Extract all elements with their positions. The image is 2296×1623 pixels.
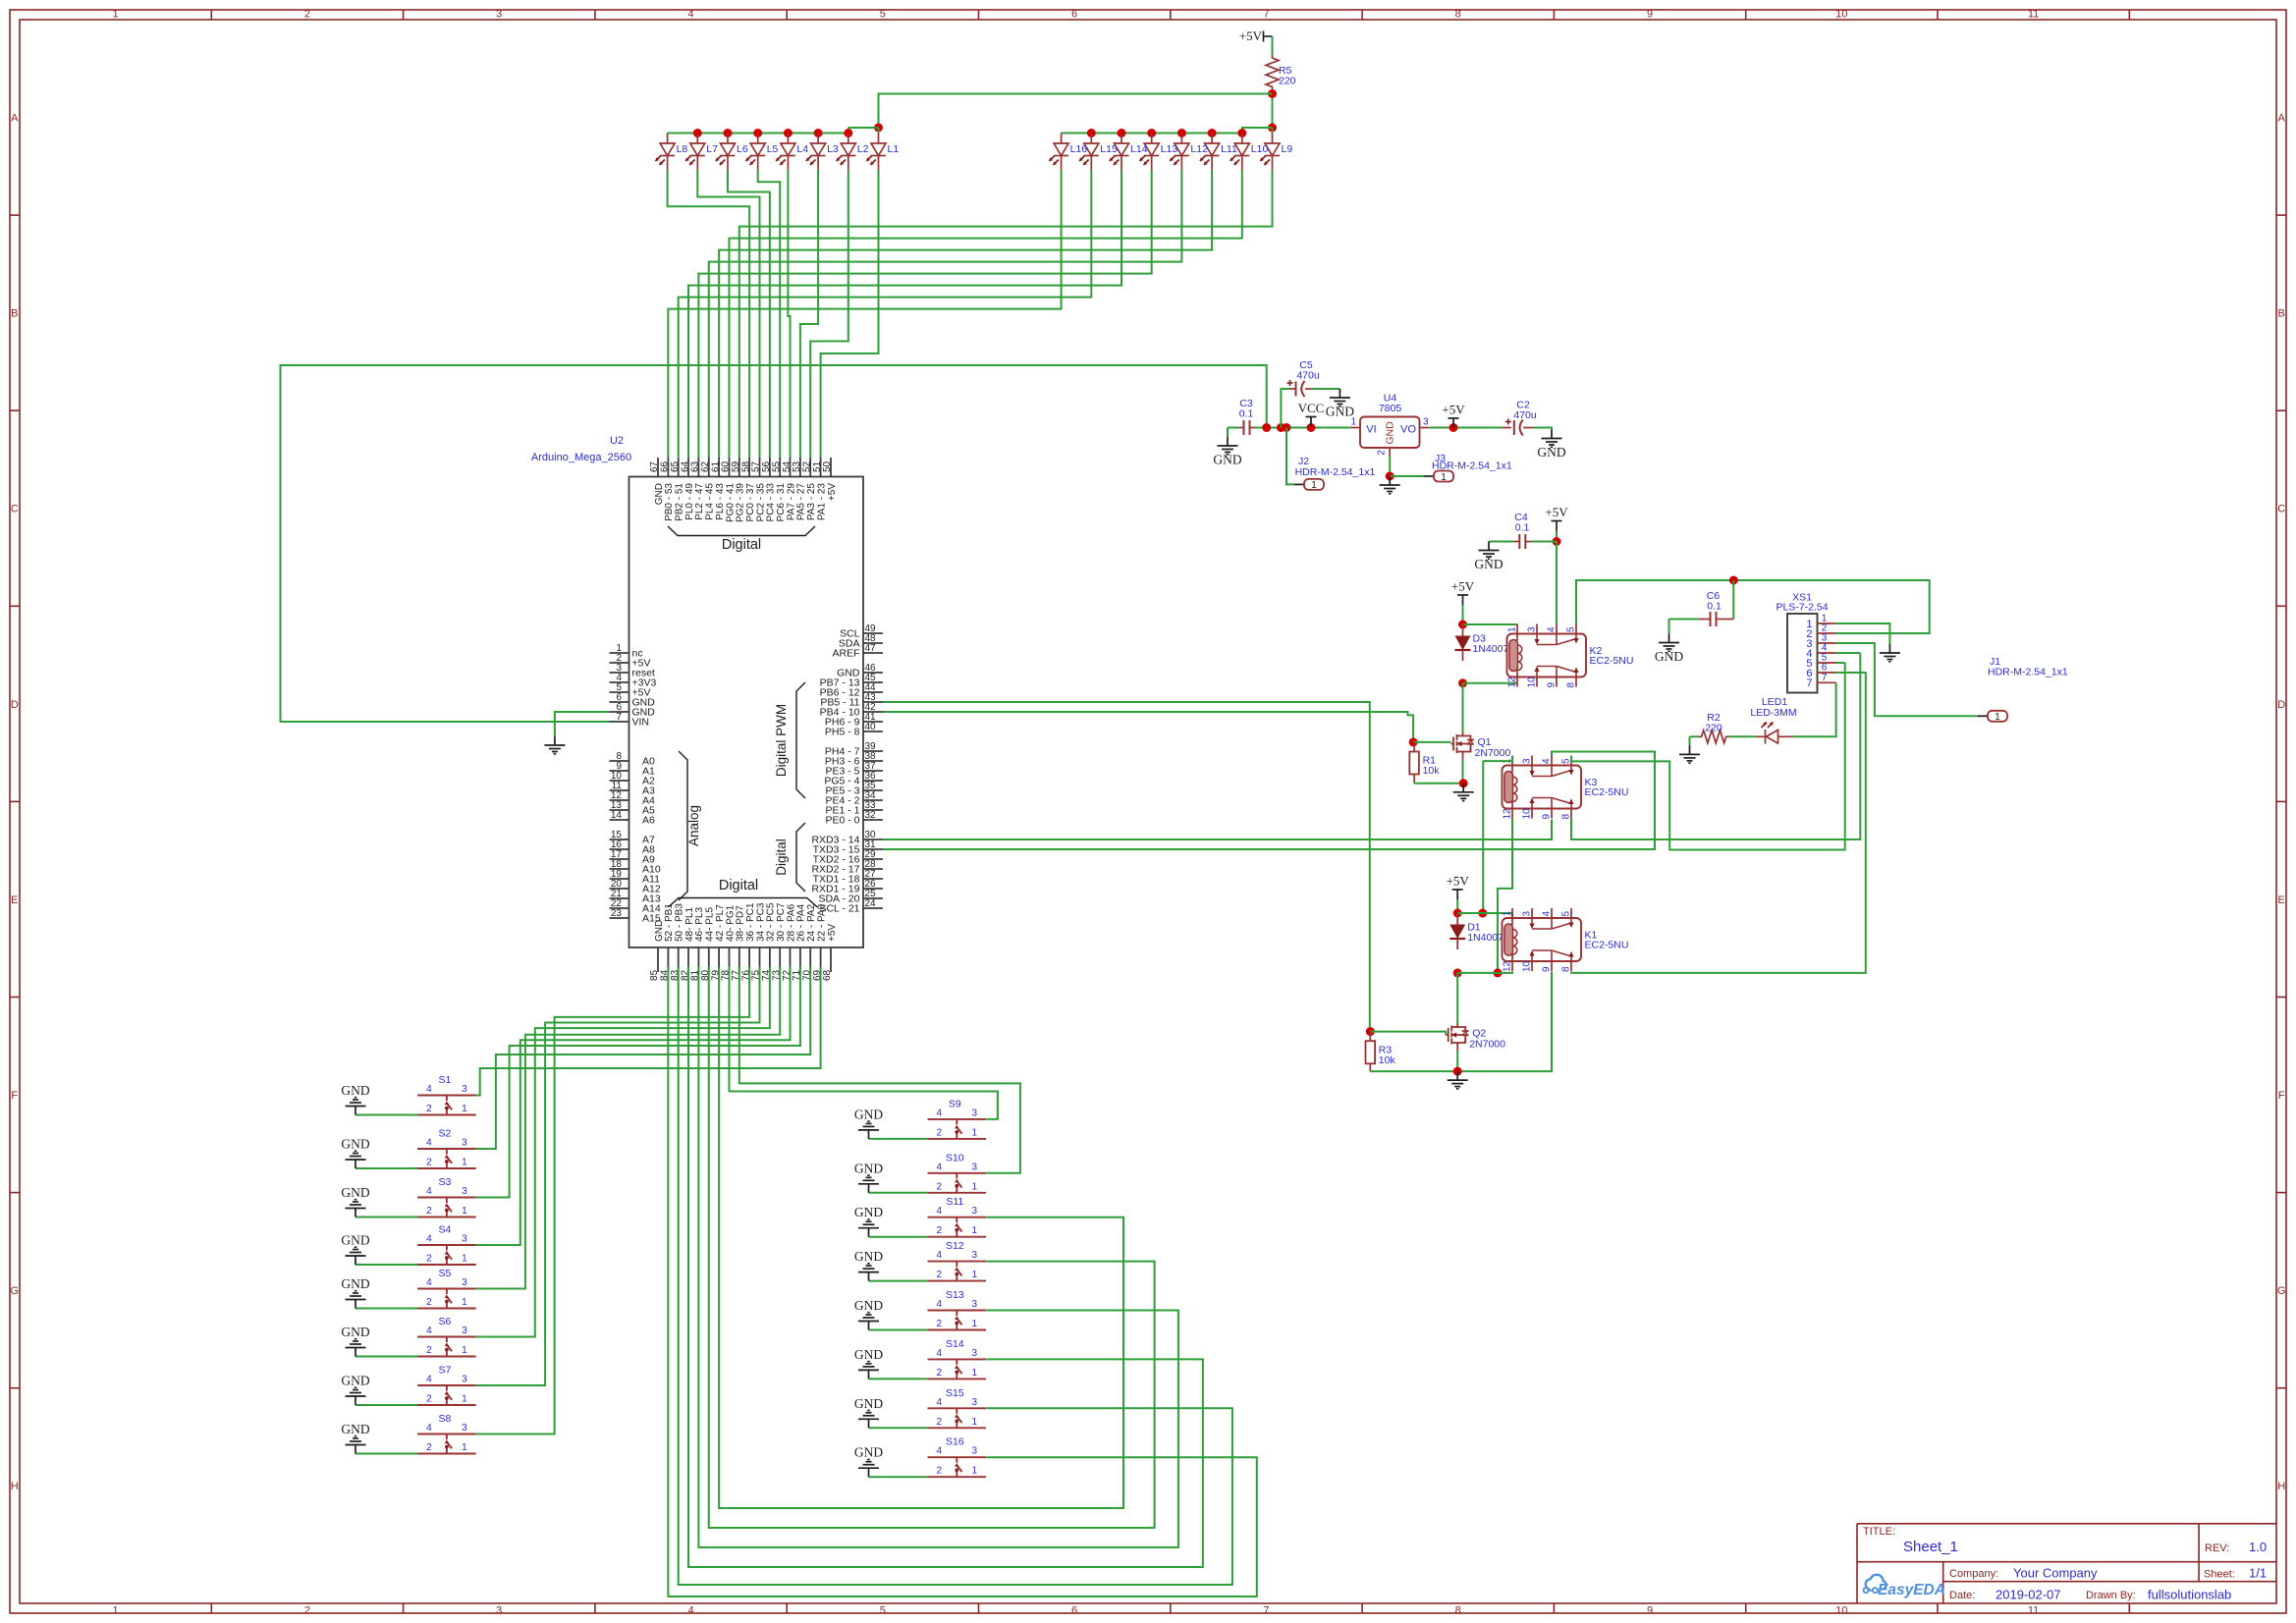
svg-text:Sheet_1: Sheet_1	[1903, 1539, 1958, 1555]
svg-text:S12: S12	[946, 1240, 964, 1252]
wire	[719, 967, 1123, 1509]
svg-text:3: 3	[972, 1108, 978, 1118]
wire	[788, 170, 790, 458]
svg-text:PA3 - 25: PA3 - 25	[806, 483, 817, 521]
switch S2	[417, 1149, 476, 1168]
wire	[476, 967, 781, 1289]
wire	[1836, 662, 1845, 664]
svg-text:HDR-M-2.54_1x1: HDR-M-2.54_1x1	[1295, 466, 1376, 478]
wire	[698, 967, 1178, 1548]
LED L8	[660, 134, 675, 171]
wire	[1571, 653, 1860, 839]
ground U2 GND pin	[544, 736, 565, 754]
junction	[1277, 423, 1285, 432]
wire	[1690, 735, 1699, 737]
svg-text:E: E	[11, 894, 18, 906]
U2 group label Digital (bottom)	[668, 898, 817, 908]
svg-text:D: D	[2277, 699, 2285, 711]
wire	[668, 133, 849, 135]
ground S7	[346, 1387, 366, 1405]
junction L5	[753, 129, 762, 137]
svg-text:220: 220	[1279, 76, 1296, 87]
wire	[883, 702, 1370, 1032]
ground S2	[346, 1151, 366, 1168]
LED L11	[1205, 134, 1220, 171]
power flag +5V	[1452, 890, 1463, 899]
svg-text:10: 10	[1522, 808, 1533, 820]
wire	[1312, 388, 1339, 390]
svg-text:1N4007: 1N4007	[1473, 643, 1509, 655]
LED L3	[811, 134, 826, 171]
junction L14	[1118, 129, 1126, 137]
svg-text:1: 1	[972, 1319, 978, 1329]
svg-text:26 - PA4: 26 - PA4	[796, 903, 807, 942]
svg-text:3: 3	[462, 1084, 467, 1095]
svg-text:1/1: 1/1	[2249, 1566, 2267, 1581]
ground Q2 source	[1448, 1071, 1468, 1089]
switch S9	[928, 1119, 987, 1139]
svg-text:PL2 - 47: PL2 - 47	[694, 483, 705, 520]
ground S1	[346, 1098, 366, 1115]
svg-text:59: 59	[731, 460, 741, 472]
XS1 pin 1	[1818, 622, 1836, 624]
junction	[1453, 968, 1462, 977]
wire	[1272, 36, 1274, 55]
wire	[1370, 1070, 1457, 1072]
svg-text:F: F	[2278, 1090, 2285, 1102]
svg-text:32 - PC5: 32 - PC5	[766, 902, 777, 942]
svg-text:4: 4	[937, 1250, 943, 1261]
svg-text:VIN: VIN	[632, 717, 650, 729]
wire	[1062, 133, 1242, 135]
wire	[476, 967, 770, 1337]
resistor R5 220	[1266, 55, 1279, 90]
wire	[869, 1280, 928, 1282]
junction	[1453, 909, 1462, 918]
svg-text:GND: GND	[1385, 421, 1396, 445]
ground S6	[346, 1339, 366, 1357]
wire	[1390, 475, 1424, 477]
svg-text:5: 5	[1561, 758, 1572, 764]
svg-text:14: 14	[611, 810, 623, 821]
svg-text:PC2 - 35: PC2 - 35	[755, 483, 766, 522]
R1 top lead	[1413, 742, 1415, 752]
wire	[728, 170, 770, 458]
wire	[758, 170, 781, 458]
svg-text:1: 1	[1507, 626, 1518, 632]
junction	[1283, 423, 1291, 432]
svg-text:1: 1	[462, 1206, 467, 1217]
wire	[1228, 427, 1238, 429]
svg-text:60: 60	[721, 460, 732, 472]
svg-text:11: 11	[2028, 1605, 2039, 1617]
svg-text:GND: GND	[854, 1161, 883, 1175]
svg-text:L12: L12	[1190, 143, 1208, 155]
U2 left pins	[610, 652, 629, 654]
LED L10	[1234, 134, 1249, 171]
svg-text:1: 1	[972, 1225, 978, 1236]
wire	[476, 967, 749, 1434]
ground C6	[1659, 634, 1679, 652]
switch S8	[417, 1434, 476, 1454]
svg-text:3: 3	[1527, 626, 1538, 632]
svg-text:1: 1	[113, 9, 119, 21]
svg-text:1: 1	[972, 1181, 978, 1192]
svg-text:32: 32	[864, 810, 876, 821]
wire	[1792, 682, 1836, 736]
junction	[1307, 423, 1316, 432]
wire	[869, 1378, 928, 1380]
svg-text:64: 64	[680, 460, 690, 472]
svg-text:6: 6	[1071, 9, 1077, 21]
wire	[281, 365, 1267, 722]
svg-text:38- PD7: 38- PD7	[736, 905, 746, 942]
wire	[688, 170, 1121, 458]
LED L16	[1054, 134, 1068, 171]
LED L13	[1144, 134, 1159, 171]
svg-text:4: 4	[687, 1605, 693, 1617]
svg-text:1: 1	[1441, 472, 1447, 483]
wire	[1489, 541, 1513, 543]
svg-text:6: 6	[1071, 1605, 1077, 1617]
svg-text:HDR-M-2.54_1x1: HDR-M-2.54_1x1	[1432, 460, 1512, 472]
svg-text:VCC: VCC	[1298, 401, 1325, 415]
svg-text:Analog: Analog	[686, 805, 701, 846]
ground S11	[858, 1219, 879, 1237]
header J1 pin 1	[1978, 715, 1988, 717]
wire	[355, 1356, 417, 1358]
wire	[719, 170, 1212, 458]
svg-text:B: B	[11, 308, 18, 320]
wire	[355, 1114, 417, 1116]
ground R2	[1679, 745, 1700, 763]
wire	[355, 1217, 417, 1218]
power flag +5V	[1457, 595, 1468, 605]
svg-text:L4: L4	[796, 143, 808, 155]
svg-text:7: 7	[1263, 9, 1269, 21]
svg-text:40: 40	[864, 722, 876, 732]
EasyEDA logo	[1864, 1575, 1886, 1593]
svg-text:2N7000: 2N7000	[1475, 747, 1511, 759]
ground XS1 pin1	[1880, 644, 1900, 662]
svg-text:L8: L8	[677, 143, 688, 155]
svg-text:3: 3	[972, 1348, 978, 1359]
svg-text:SCL - 21: SCL - 21	[819, 903, 859, 915]
diode D3 1N4007	[1462, 624, 1464, 636]
XS1 pin 4	[1818, 652, 1836, 654]
svg-text:3: 3	[972, 1250, 978, 1261]
junction L4	[784, 129, 793, 137]
svg-text:+5V: +5V	[1447, 874, 1470, 889]
wire	[668, 967, 1256, 1597]
ground S3	[346, 1200, 366, 1217]
R3 bottom lead	[1369, 1063, 1371, 1071]
svg-text:1.0: 1.0	[2249, 1540, 2267, 1554]
wire	[1483, 756, 1512, 762]
wire	[1836, 643, 1978, 716]
R3 top lead	[1369, 1032, 1371, 1042]
wire	[697, 170, 759, 458]
wire Q2 source	[1456, 1047, 1458, 1052]
svg-text:REV:: REV:	[2205, 1542, 2229, 1554]
svg-text:1: 1	[462, 1104, 467, 1114]
junction	[1494, 968, 1503, 977]
svg-text:2: 2	[937, 1368, 943, 1379]
svg-text:S2: S2	[438, 1128, 451, 1140]
svg-text:Date:: Date:	[1949, 1590, 1975, 1601]
svg-text:PL6 - 43: PL6 - 43	[715, 483, 726, 520]
svg-text:4: 4	[937, 1108, 943, 1118]
svg-text:4: 4	[937, 1446, 943, 1457]
svg-text:46- PL3: 46- PL3	[694, 907, 705, 942]
svg-text:L5: L5	[767, 143, 779, 155]
wire	[1498, 819, 1512, 973]
svg-text:U2: U2	[610, 435, 624, 447]
wire	[355, 1308, 417, 1310]
relay K1 EC2-5NU	[1503, 918, 1582, 961]
U2 bottom pins 85-68	[657, 947, 659, 972]
wire	[869, 1427, 928, 1429]
wire	[883, 820, 1552, 840]
svg-text:2: 2	[426, 1297, 432, 1308]
LED L7	[690, 134, 705, 171]
ground C4	[1479, 542, 1500, 560]
svg-text:3: 3	[462, 1325, 467, 1336]
svg-text:VI: VI	[1366, 424, 1376, 436]
connector XS1 PLS-7-2.54	[1787, 614, 1818, 693]
LED L1	[871, 134, 886, 171]
svg-text:L10: L10	[1251, 143, 1269, 155]
switch S13	[928, 1311, 987, 1330]
svg-text:67: 67	[649, 460, 660, 472]
svg-text:2: 2	[937, 1225, 943, 1236]
svg-text:EC2-5NU: EC2-5NU	[1585, 940, 1629, 951]
wire	[476, 967, 811, 1150]
wire	[1836, 632, 1930, 634]
junction	[1553, 537, 1561, 546]
regulator U4 7805	[1360, 417, 1420, 449]
svg-text:HDR-M-2.54_1x1: HDR-M-2.54_1x1	[1988, 667, 2068, 678]
U2 group label Digital (top)	[668, 526, 815, 536]
svg-text:F: F	[11, 1090, 18, 1102]
svg-text:fullsolutionslab: fullsolutionslab	[2148, 1588, 2231, 1602]
svg-text:4: 4	[1547, 626, 1558, 632]
svg-text:PE0 - 0: PE0 - 0	[825, 815, 859, 827]
wire	[679, 967, 1232, 1586]
svg-text:Your Company: Your Company	[2013, 1566, 2098, 1581]
svg-text:PH5 - 8: PH5 - 8	[825, 727, 860, 738]
svg-text:4: 4	[1542, 758, 1553, 764]
svg-text:9: 9	[1542, 814, 1553, 820]
switch S12	[928, 1262, 987, 1281]
wire	[1456, 973, 1458, 1024]
wire	[1457, 972, 1552, 1072]
wire	[1462, 605, 1464, 624]
ground S14	[858, 1362, 879, 1380]
svg-text:GND: GND	[854, 1445, 883, 1460]
svg-text:L1: L1	[888, 143, 900, 155]
diode D1 1N4007	[1456, 913, 1458, 925]
svg-text:GND: GND	[341, 1276, 369, 1291]
svg-text:40- PG1: 40- PG1	[725, 904, 736, 942]
svg-text:2: 2	[426, 1394, 432, 1405]
relay K3 EC2-5NU	[1503, 766, 1582, 809]
svg-text:53: 53	[792, 460, 802, 472]
svg-text:47: 47	[864, 643, 876, 654]
svg-text:2: 2	[937, 1127, 943, 1138]
wire	[1482, 761, 1484, 913]
ground C2	[1542, 430, 1562, 448]
svg-text:2: 2	[937, 1466, 943, 1477]
junction	[874, 124, 883, 133]
svg-text:L2: L2	[857, 143, 869, 155]
XS1 pin 5	[1818, 662, 1836, 664]
svg-text:4: 4	[426, 1186, 432, 1197]
svg-text:S16: S16	[946, 1436, 964, 1448]
switch S7	[417, 1385, 476, 1405]
title block	[1857, 1524, 2276, 1603]
wire	[1255, 427, 1351, 429]
svg-text:VO: VO	[1400, 424, 1416, 436]
svg-text:4: 4	[937, 1206, 943, 1217]
wire	[1732, 580, 1734, 620]
wire	[1669, 619, 1699, 621]
svg-text:3: 3	[462, 1277, 467, 1288]
wire	[476, 967, 791, 1246]
XS1 pin 3	[1818, 642, 1836, 644]
svg-text:3: 3	[496, 9, 502, 21]
switch S14	[928, 1359, 987, 1379]
LED L4	[781, 134, 795, 171]
svg-text:Digital: Digital	[774, 839, 789, 876]
svg-text:54: 54	[782, 460, 793, 472]
junction	[1386, 472, 1394, 481]
svg-text:470u: 470u	[1513, 409, 1537, 421]
switch S11	[928, 1217, 987, 1237]
U4 pin 1 VI	[1351, 427, 1360, 429]
svg-text:GND: GND	[1537, 445, 1565, 460]
svg-text:1: 1	[972, 1270, 978, 1280]
svg-text:+5V: +5V	[1442, 403, 1465, 417]
svg-text:GND: GND	[1655, 649, 1683, 664]
wire	[1414, 783, 1463, 784]
wire	[1242, 128, 1273, 134]
switch S5	[417, 1289, 476, 1309]
U2 group label Digital PWM	[796, 682, 805, 798]
wire	[849, 128, 879, 134]
svg-text:4: 4	[426, 1277, 432, 1288]
svg-text:9: 9	[1542, 966, 1553, 972]
svg-text:12: 12	[1503, 960, 1513, 972]
LED L14	[1115, 134, 1129, 171]
svg-text:GND: GND	[854, 1107, 883, 1121]
wire	[1457, 913, 1512, 918]
wire	[668, 170, 750, 458]
ground S10	[858, 1175, 879, 1193]
svg-text:3: 3	[972, 1206, 978, 1217]
svg-text:5: 5	[1561, 911, 1572, 917]
svg-text:3: 3	[462, 1375, 467, 1385]
svg-text:2: 2	[937, 1319, 943, 1329]
svg-text:85: 85	[649, 969, 660, 981]
svg-text:1: 1	[972, 1417, 978, 1428]
switch S10	[928, 1173, 987, 1193]
svg-text:50: 50	[822, 460, 833, 472]
junction	[1268, 89, 1277, 98]
svg-text:H: H	[2277, 1481, 2285, 1492]
svg-text:4: 4	[937, 1397, 943, 1408]
svg-text:2: 2	[426, 1158, 432, 1168]
wire Q1 source	[1462, 755, 1464, 760]
svg-text:30 - PC7: 30 - PC7	[776, 902, 787, 942]
svg-text:7: 7	[1806, 677, 1812, 689]
svg-text:63: 63	[690, 460, 701, 472]
wire	[1413, 741, 1450, 743]
svg-text:1: 1	[972, 1368, 978, 1379]
svg-text:9: 9	[1647, 9, 1653, 21]
wire	[476, 967, 821, 1096]
junction L11	[1208, 129, 1217, 137]
wire	[709, 967, 1155, 1529]
junction	[1449, 423, 1458, 432]
svg-text:Digital: Digital	[722, 537, 761, 553]
svg-text:2: 2	[304, 9, 310, 21]
svg-text:0.1: 0.1	[1239, 408, 1254, 420]
junction	[1409, 737, 1418, 746]
ground S4	[346, 1247, 366, 1265]
svg-text:G: G	[2277, 1285, 2286, 1297]
wire	[1462, 760, 1464, 784]
U2 group label Digital (right)	[796, 823, 805, 892]
wire	[739, 967, 1020, 1173]
svg-text:3: 3	[462, 1138, 467, 1149]
svg-text:3: 3	[972, 1162, 978, 1172]
svg-text:4: 4	[426, 1138, 432, 1149]
junction	[1262, 423, 1271, 432]
svg-text:L14: L14	[1130, 143, 1148, 155]
wire	[679, 170, 1092, 458]
svg-text:L15: L15	[1100, 143, 1118, 155]
svg-text:S15: S15	[946, 1387, 964, 1399]
svg-text:5: 5	[880, 1605, 886, 1617]
junction	[1453, 1067, 1462, 1076]
svg-text:3: 3	[1423, 417, 1429, 428]
wire	[1429, 427, 1503, 429]
svg-text:1: 1	[462, 1297, 467, 1308]
svg-text:GND: GND	[854, 1396, 883, 1411]
ground C3	[1218, 437, 1238, 455]
svg-text:8: 8	[1566, 682, 1577, 688]
svg-text:1: 1	[972, 1466, 978, 1477]
wire	[1556, 542, 1558, 624]
svg-text:7805: 7805	[1379, 403, 1402, 414]
svg-text:68: 68	[822, 969, 833, 981]
svg-text:28 - PA6: 28 - PA6	[786, 903, 796, 942]
svg-text:S5: S5	[438, 1268, 451, 1279]
svg-text:S10: S10	[946, 1152, 964, 1163]
svg-text:2: 2	[304, 1605, 310, 1617]
svg-text:GND: GND	[1474, 557, 1503, 571]
svg-text:S1: S1	[438, 1074, 451, 1086]
svg-text:4: 4	[426, 1084, 432, 1095]
wire	[1456, 1051, 1458, 1071]
svg-text:8: 8	[1561, 814, 1572, 820]
svg-text:1: 1	[462, 1394, 467, 1405]
svg-text:PA7 - 29: PA7 - 29	[786, 483, 796, 521]
U2 right pins	[863, 632, 883, 634]
junction	[1458, 621, 1467, 629]
wire	[1286, 428, 1294, 485]
